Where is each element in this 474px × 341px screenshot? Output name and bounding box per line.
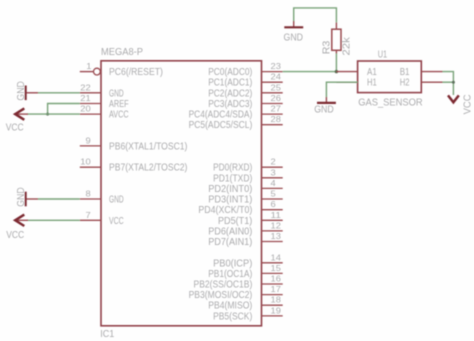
svg-text:VCC: VCC [6, 230, 24, 241]
svg-text:GND: GND [16, 187, 27, 207]
svg-text:PB4(MISO): PB4(MISO) [208, 301, 252, 312]
pin A1 [336, 67, 377, 78]
svg-text:27: 27 [271, 104, 282, 114]
svg-text:12: 12 [271, 220, 282, 230]
svg-text:PD0(RXD): PD0(RXD) [213, 163, 252, 174]
svg-text:6: 6 [271, 199, 276, 209]
svg-text:10: 10 [80, 157, 91, 167]
svg-text:R3: R3 [322, 41, 333, 55]
svg-text:15: 15 [271, 263, 282, 273]
svg-text:11: 11 [271, 210, 282, 220]
svg-text:GND: GND [314, 105, 334, 116]
svg-text:PD1(TXD): PD1(TXD) [213, 173, 252, 184]
svg-text:PD6(AIN0): PD6(AIN0) [208, 226, 252, 237]
svg-text:GND: GND [284, 32, 304, 43]
svg-text:7: 7 [86, 210, 91, 220]
junction dot at B1/H2 VCC vertical [452, 81, 455, 84]
svg-text:VCC: VCC [109, 216, 124, 227]
svg-text:PD4(XCK/T0): PD4(XCK/T0) [198, 205, 252, 216]
pin H1 [336, 78, 377, 89]
svg-text:GND: GND [16, 81, 27, 101]
svg-text:AREF: AREF [109, 99, 129, 110]
svg-text:PB2(SS/OC1B): PB2(SS/OC1B) [194, 280, 253, 291]
svg-text:IC1: IC1 [100, 329, 114, 340]
pin H2 [400, 78, 443, 89]
pin 26 PC3(ADC3) [208, 93, 283, 110]
svg-text:PB1(OC1A): PB1(OC1A) [208, 269, 252, 280]
ground symbol at pin22 [16, 81, 38, 101]
svg-text:PC2(ADC2): PC2(ADC2) [208, 88, 252, 99]
svg-text:B1: B1 [400, 67, 410, 78]
wire pin23 to A1 / R3 junction [283, 71, 337, 73]
svg-text:4: 4 [271, 178, 276, 188]
svg-text:H2: H2 [400, 78, 410, 89]
wire pin22 to GND [38, 92, 80, 94]
sensor U1 GAS_SENSOR box [358, 61, 422, 93]
pin B1 [400, 67, 443, 78]
junction dot at R3 / pin23 net [335, 70, 338, 73]
svg-text:PC6(/RESET): PC6(/RESET) [109, 67, 163, 78]
svg-text:AVCC: AVCC [109, 110, 129, 121]
wire H1 to GND [326, 82, 357, 97]
svg-text:PB5(SCK): PB5(SCK) [213, 311, 252, 322]
svg-text:GND: GND [109, 88, 124, 99]
VCC symbol at pin7 [6, 215, 28, 241]
svg-text:22k: 22k [342, 36, 353, 55]
pin 9 stub [80, 135, 101, 146]
svg-text:PC1(ADC1): PC1(ADC1) [208, 78, 252, 89]
svg-text:PD7(AIN1): PD7(AIN1) [208, 237, 252, 248]
svg-text:H1: H1 [367, 78, 377, 89]
svg-text:9: 9 [86, 135, 91, 145]
ground symbol at pin8 [16, 187, 38, 207]
junction dot at AREF/AVCC tie [46, 113, 49, 116]
pin 17 PB3(MOSI/OC2) [189, 284, 283, 301]
pin 14 PB0(ICP) [213, 252, 283, 269]
svg-text:GAS_SENSOR: GAS_SENSOR [358, 97, 423, 108]
wire H2 to vertical [443, 81, 454, 83]
svg-text:VCC: VCC [462, 94, 473, 114]
wire pin8 to GND [38, 198, 80, 200]
svg-text:24: 24 [271, 72, 282, 82]
resistor R3 22k [322, 22, 353, 55]
pin 28 PC5(ADC5/SCL) [189, 114, 283, 131]
pin 11 PD5(T1) [218, 210, 283, 227]
svg-text:PC0(ADC0): PC0(ADC0) [208, 67, 252, 78]
pin 25 PC2(ADC2) [208, 82, 283, 99]
svg-text:PD2(INT0): PD2(INT0) [208, 184, 252, 195]
pin 8 stub [80, 189, 101, 200]
svg-text:U1: U1 [378, 50, 388, 61]
svg-text:5: 5 [271, 189, 276, 199]
pin 22 stub [80, 82, 101, 93]
pin 2 PD0(RXD) [213, 157, 283, 174]
pin 19 PB5(SCK) [213, 305, 283, 322]
svg-text:PB0(ICP): PB0(ICP) [213, 258, 252, 269]
pin 18 PB4(MISO) [208, 295, 283, 312]
pin 16 PB2(SS/OC1B) [194, 274, 283, 291]
VCC symbol right of U1 [448, 94, 473, 114]
svg-text:PC4(ADC4/SDA): PC4(ADC4/SDA) [189, 110, 253, 121]
pin 23 PC0(ADC0) [208, 61, 283, 78]
wire pin7 to VCC arrow [27, 219, 80, 221]
wire B1 to VCC [443, 72, 454, 95]
svg-text:20: 20 [80, 104, 91, 114]
svg-text:22: 22 [80, 82, 91, 92]
svg-text:PD3(INT1): PD3(INT1) [208, 195, 252, 206]
ground symbol above R3 [284, 21, 304, 43]
svg-text:PC3(ADC3): PC3(ADC3) [208, 99, 252, 110]
svg-text:18: 18 [271, 295, 282, 305]
pin 20 stub [80, 104, 101, 115]
svg-text:8: 8 [86, 189, 91, 199]
svg-text:28: 28 [271, 114, 282, 124]
svg-text:GND: GND [109, 195, 124, 206]
svg-text:PD5(T1): PD5(T1) [218, 216, 252, 227]
VCC symbol at pin20 [6, 108, 28, 133]
pin 27 PC4(ADC4/SDA) [189, 104, 283, 121]
pin 12 PD6(AIN0) [208, 220, 283, 237]
svg-text:26: 26 [271, 93, 282, 103]
svg-text:14: 14 [271, 252, 282, 262]
svg-text:16: 16 [271, 274, 282, 284]
pin 21 stub [80, 93, 101, 104]
pin 6 PD4(XCK/T0) [198, 199, 282, 216]
svg-text:1: 1 [86, 61, 91, 71]
svg-text:17: 17 [271, 284, 282, 294]
pin 13 PD7(AIN1) [208, 231, 283, 248]
pin 1 PC6(/RESET) [80, 61, 101, 75]
pin 7 stub [80, 210, 101, 221]
pin 3 PD1(TXD) [213, 167, 283, 184]
svg-text:19: 19 [271, 305, 282, 315]
svg-text:2: 2 [271, 157, 276, 167]
svg-text:21: 21 [80, 93, 91, 103]
svg-text:A1: A1 [367, 67, 377, 78]
pin 10 stub [80, 157, 101, 168]
IC IC1 MEGA8-P box [101, 61, 262, 326]
wire pin21 AREF jog down to VCC rail [48, 104, 80, 115]
svg-text:MEGA8-P: MEGA8-P [101, 47, 143, 58]
svg-text:PB7(XTAL2/TOSC2): PB7(XTAL2/TOSC2) [109, 163, 187, 174]
pin 15 PB1(OC1A) [208, 263, 283, 280]
pin 4 PD2(INT0) [208, 178, 283, 195]
svg-text:VCC: VCC [6, 123, 24, 134]
pin 5 PD3(INT1) [208, 189, 283, 206]
wire R3 bottom lead to net [335, 54, 337, 72]
svg-text:PB3(MOSI/OC2): PB3(MOSI/OC2) [189, 290, 253, 301]
wire pin20 AVCC to VCC arrow [27, 113, 80, 115]
svg-text:PB6(XTAL1/TOSC1): PB6(XTAL1/TOSC1) [109, 141, 187, 152]
wire R3 top to GND [294, 8, 337, 23]
svg-text:23: 23 [271, 61, 282, 71]
ground symbol below U1 [314, 97, 336, 116]
svg-text:PC5(ADC5/SCL): PC5(ADC5/SCL) [189, 120, 253, 131]
svg-text:3: 3 [271, 167, 276, 177]
pin 24 PC1(ADC1) [208, 72, 283, 89]
svg-text:25: 25 [271, 82, 282, 92]
svg-text:13: 13 [271, 231, 282, 241]
